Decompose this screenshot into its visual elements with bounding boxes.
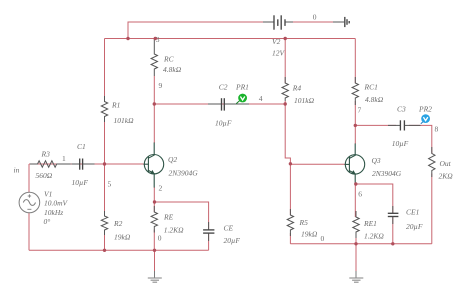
svg-text:5: 5 [108, 180, 112, 189]
wire R5 bottom [289, 233, 291, 244]
svg-text:10kHz: 10kHz [44, 208, 63, 217]
wire CE branch [155, 202, 209, 229]
source V1 [19, 192, 40, 213]
wire R2 bottom [104, 232, 106, 250]
junction node 7 (RC1 / C3 / Q3 collector) [354, 124, 357, 127]
capacitor CE [203, 222, 214, 241]
svg-text:2N3904G: 2N3904G [372, 169, 402, 178]
junction node 3 (RC top) [154, 37, 157, 40]
wire RE1 bottom [355, 235, 357, 244]
svg-text:560Ω: 560Ω [36, 171, 53, 180]
svg-text:R4: R4 [292, 84, 302, 93]
wire RC1 bottom to collector node7 [354, 101, 356, 125]
junction Q3 base / R5 [289, 162, 292, 165]
wire RC bottom to node9 junction [153, 76, 155, 104]
wire Q3 collector [354, 125, 356, 144]
junction R4 top on VCC rail [284, 37, 287, 40]
svg-text:0: 0 [313, 13, 317, 22]
wire stage2 base drop with jog [285, 104, 290, 164]
svg-text:RC1: RC1 [364, 83, 378, 92]
wire CE1 branch [356, 184, 393, 213]
resistor RC [151, 39, 157, 76]
svg-text:RC: RC [163, 55, 175, 64]
ground (top, right-facing) [333, 17, 349, 27]
svg-text:C1: C1 [77, 142, 86, 151]
svg-text:0: 0 [158, 233, 162, 242]
capacitor C1 [72, 159, 95, 170]
svg-text:Out: Out [440, 159, 452, 168]
ground (right) [349, 244, 363, 282]
resistor RE1 [353, 211, 359, 238]
svg-text:V2: V2 [272, 37, 281, 46]
probe PR2 [421, 114, 430, 124]
svg-text:4: 4 [259, 94, 263, 103]
wire Q3 emitter to node6 [354, 183, 356, 217]
capacitor C2 [208, 98, 249, 110]
junction RE1 bottom / ground [354, 242, 357, 245]
transistor Q2 [144, 143, 164, 188]
svg-text:R2: R2 [113, 219, 123, 228]
svg-text:RE1: RE1 [363, 219, 377, 228]
wire R4 top lead [284, 39, 286, 84]
svg-text:7: 7 [358, 106, 362, 115]
svg-text:0°: 0° [44, 217, 51, 226]
svg-text:1.2KΩ: 1.2KΩ [164, 225, 184, 234]
wire Q3 base row [290, 163, 344, 165]
wire right ground rail [290, 243, 431, 245]
ground (left) [148, 250, 162, 282]
junction node 9 (Q2 collector / C2) [153, 102, 156, 105]
svg-text:2: 2 [159, 184, 163, 193]
wire C3 to out corner [409, 125, 432, 153]
svg-text:101kΩ: 101kΩ [114, 116, 135, 125]
svg-text:12V: 12V [272, 49, 286, 58]
svg-text:R1: R1 [111, 101, 120, 110]
resistor R1 [101, 96, 107, 122]
junction battery feed on VCC rail [126, 37, 129, 40]
svg-text:10µF: 10µF [72, 178, 89, 187]
svg-text:C3: C3 [397, 105, 406, 114]
resistor Out [429, 147, 435, 177]
junction node 2 (Q2 emitter / RE / CE) [153, 200, 156, 203]
wire V1 bottom lead [28, 213, 30, 251]
svg-text:CE: CE [224, 224, 234, 233]
wire R5 branch [289, 164, 291, 215]
wire Q2 collector [153, 104, 155, 143]
resistor R4 [282, 77, 288, 101]
wire RC1 top lead [354, 39, 356, 84]
battery V2 [263, 15, 293, 29]
probe PR1 [236, 94, 247, 104]
wire node4 row [154, 103, 285, 105]
svg-text:3: 3 [156, 35, 160, 44]
wire RE bottom [153, 230, 155, 251]
svg-text:19kΩ: 19kΩ [301, 229, 318, 238]
svg-text:1: 1 [62, 154, 66, 163]
wire Out resistor bottom [431, 174, 433, 244]
svg-text:Q3: Q3 [372, 156, 381, 165]
resistor R2 [101, 211, 107, 235]
junction node 6 (Q3 emitter / RE1 / CE1) [354, 182, 357, 185]
svg-text:R5: R5 [299, 218, 309, 227]
svg-text:4.8kΩ: 4.8kΩ [163, 65, 182, 74]
svg-text:PR2: PR2 [418, 105, 432, 114]
svg-text:101kΩ: 101kΩ [294, 96, 315, 105]
svg-text:20µF: 20µF [406, 222, 423, 231]
wire left ground rail [29, 249, 209, 251]
junction CE1 bottom on ground rail [391, 242, 394, 245]
wire R1 column [104, 39, 106, 102]
svg-text:10µF: 10µF [392, 139, 409, 148]
svg-text:2N3904G: 2N3904G [169, 169, 199, 178]
svg-text:4.8kΩ: 4.8kΩ [365, 95, 384, 104]
wire R4 bottom lead [284, 101, 286, 104]
capacitor C3 [388, 120, 421, 130]
svg-text:10.0mV: 10.0mV [44, 199, 69, 208]
svg-text:V1: V1 [44, 190, 52, 199]
svg-text:R3: R3 [41, 150, 51, 159]
wire VCC rail [105, 38, 356, 40]
svg-text:19kΩ: 19kΩ [114, 233, 131, 242]
svg-text:9: 9 [159, 81, 163, 90]
svg-text:C2: C2 [219, 83, 228, 92]
wire battery right to ground [286, 21, 334, 23]
wire battery top row left [128, 22, 267, 39]
svg-text:in: in [14, 165, 20, 174]
wire V1 top lead [28, 164, 30, 192]
resistor RC1 [352, 77, 358, 105]
resistor R3 [30, 161, 71, 167]
wire R1 to node5 to R2 [104, 120, 106, 217]
wire Q2 base row [29, 163, 144, 165]
transistor Q3 [345, 144, 365, 184]
svg-text:10µF: 10µF [215, 119, 232, 128]
svg-text:1.2KΩ: 1.2KΩ [364, 232, 384, 241]
junction node 4 (C2 / R4) [284, 102, 287, 105]
resistor RE [151, 206, 157, 232]
junction node 5 / node 1 (R1-R2 divider, C1) [103, 162, 106, 165]
svg-text:2KΩ: 2KΩ [439, 172, 454, 181]
svg-text:PR1: PR1 [235, 83, 249, 92]
wire CE1 bottom [392, 217, 394, 244]
capacitor CE1 [388, 206, 399, 224]
svg-text:0: 0 [321, 234, 325, 243]
junction RE bottom / ground [153, 249, 156, 252]
wire Q2 emitter to node2 [153, 187, 155, 212]
wire C3 row [355, 124, 396, 126]
wire CE bottom [208, 234, 210, 251]
svg-text:CE1: CE1 [406, 208, 419, 217]
svg-text:20µF: 20µF [224, 236, 241, 245]
svg-text:RE: RE [163, 213, 174, 222]
svg-text:6: 6 [358, 190, 362, 199]
junction R2 bottom on ground rail [103, 249, 106, 252]
resistor R5 [287, 209, 293, 236]
svg-text:8: 8 [435, 125, 439, 134]
svg-text:Q2: Q2 [168, 155, 177, 164]
